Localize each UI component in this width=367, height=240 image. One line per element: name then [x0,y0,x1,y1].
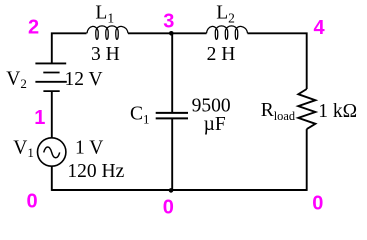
svg-text:3 H: 3 H [91,44,120,65]
battery V2 plate 2 (short) [43,72,59,74]
svg-text:12 V: 12 V [65,69,103,90]
wire: resistor to bottom-right corner [306,129,308,191]
wire: AC source to bottom-left corner [51,166,53,191]
svg-text:C1: C1 [130,103,150,126]
svg-text:Rload: Rload [261,100,296,123]
svg-text:0: 0 [163,196,174,218]
wire: bottom rail [52,189,307,191]
svg-text:0: 0 [27,190,38,212]
svg-text:4: 4 [314,17,326,39]
svg-text:1 V: 1 V [75,137,103,158]
wire: node 3 to L2 [171,32,206,34]
svg-text:V2: V2 [6,69,27,91]
wire: capacitor to bottom rail [171,118,173,190]
svg-text:L1: L1 [95,3,114,26]
inductor L1 [87,26,128,40]
svg-text:3: 3 [163,11,174,33]
resistor Rload zigzag [298,89,315,129]
battery V2 plate 4 (short, bottom) [43,90,59,92]
svg-text:1 kΩ: 1 kΩ [318,101,357,122]
node 0 junction dot (bottom middle) [169,188,174,193]
AC source V1 sine wave [44,147,60,158]
node 3 junction dot [169,31,174,36]
battery V2 plate 3 (long) [35,81,66,83]
wire: L2 to top-right corner down to resistor [248,33,307,89]
svg-text:V1: V1 [13,138,34,160]
capacitor C1 bottom plate [156,117,188,119]
svg-text:0: 0 [312,193,323,215]
svg-text:2: 2 [28,16,39,38]
svg-text:2 H: 2 H [207,44,236,65]
svg-text:120 Hz: 120 Hz [67,161,124,182]
capacitor C1 top plate [156,112,188,114]
svg-text:1: 1 [34,107,45,129]
wire: battery to AC source [51,91,53,138]
wire: top-left from battery top up and right to L1 [52,33,87,63]
svg-text:µF: µF [204,114,226,135]
AC source V1 circle [38,138,66,166]
svg-text:L2: L2 [216,3,235,26]
wire: L1 to node 3 [128,32,172,34]
wire: middle rail node3 to capacitor [171,33,173,113]
battery V2 plate 1 (long, top) [35,62,66,64]
inductor L2 [207,26,248,40]
